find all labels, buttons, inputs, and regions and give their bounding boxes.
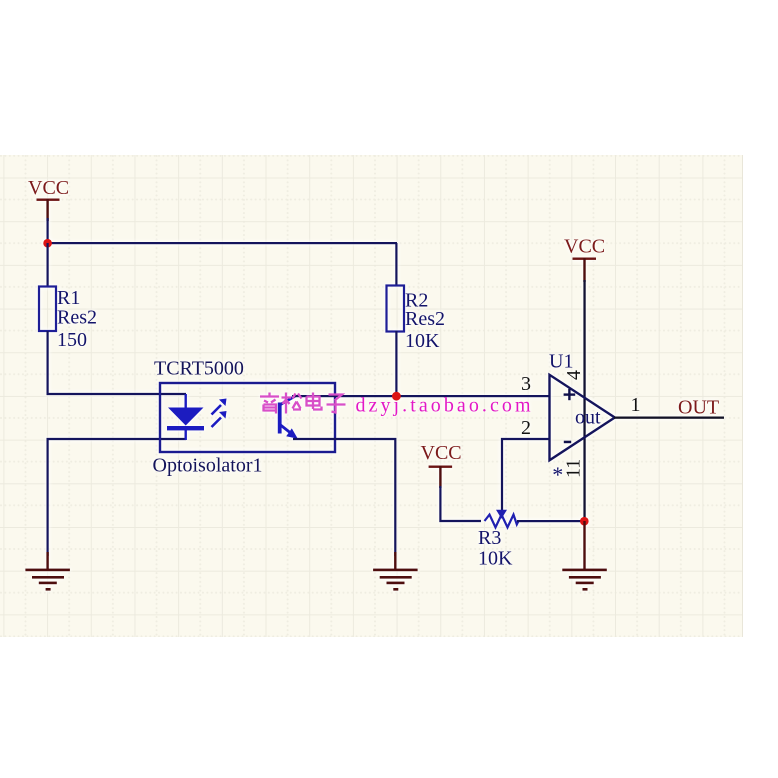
svg-text:10K: 10K xyxy=(478,548,513,570)
svg-text:R3: R3 xyxy=(478,527,501,549)
node junction R3/pin11/ground xyxy=(580,517,589,526)
svg-text:Res2: Res2 xyxy=(57,307,97,329)
LED emission arrow 1 xyxy=(212,399,227,415)
wire top rail xyxy=(47,242,398,244)
svg-text:4: 4 xyxy=(563,370,585,380)
svg-text:OUT: OUT xyxy=(678,397,719,419)
svg-text:U1: U1 xyxy=(549,351,573,373)
optoisolator U TCRT5000 box xyxy=(153,358,336,477)
wire VCC to R3 left xyxy=(440,486,481,521)
watermark chinese char dian xyxy=(307,393,322,410)
svg-text:VCC: VCC xyxy=(564,236,605,258)
watermark chinese char yu xyxy=(260,393,279,414)
wire R2 to collector net xyxy=(395,331,397,396)
svg-text:out: out xyxy=(575,407,601,429)
svg-text:2: 2 xyxy=(521,417,531,439)
wire opto cathode to ground xyxy=(48,439,186,556)
potentiometer R3 xyxy=(478,510,519,570)
power port VCC (above op-amp) xyxy=(564,236,605,283)
svg-text:Res2: Res2 xyxy=(405,308,445,330)
svg-text:TCRT5000: TCRT5000 xyxy=(154,358,244,380)
wire R1 to opto anode xyxy=(48,331,186,394)
watermark text xyxy=(356,395,531,417)
pin line 4/11 vertical through op-amp xyxy=(583,280,585,521)
phototransistor inside optoisolator xyxy=(278,396,298,439)
LED diode inside optoisolator xyxy=(167,394,204,440)
wire collector to op-amp pin3 xyxy=(292,395,549,397)
wire rail to R1 xyxy=(47,243,49,286)
watermark chinese char song xyxy=(282,393,302,414)
LED emission arrow 2 xyxy=(212,411,227,427)
svg-text:VCC: VCC xyxy=(28,177,69,199)
ground GND3 (right) xyxy=(562,521,607,591)
svg-text:VCC: VCC xyxy=(421,442,462,464)
wire emitter to ground xyxy=(293,439,395,556)
svg-text:10K: 10K xyxy=(405,330,440,352)
svg-text:Optoisolator1: Optoisolator1 xyxy=(153,455,263,477)
svg-text:11: 11 xyxy=(563,459,585,478)
ground GND1 (left) xyxy=(25,552,70,591)
wire op-amp output pin1 xyxy=(614,417,724,419)
node junction R2/collector xyxy=(392,392,401,401)
power port VCC (R3) xyxy=(421,442,462,488)
wire pin2 to R3 wiper xyxy=(502,439,549,510)
power port VCC (top-left) xyxy=(28,177,69,221)
wire VCC stem to rail xyxy=(47,218,49,244)
svg-text:1: 1 xyxy=(631,394,641,416)
svg-text:dzyj.taobao.com: dzyj.taobao.com xyxy=(356,395,531,417)
op-amp U1 triangle xyxy=(549,351,615,488)
watermark chinese char zi xyxy=(327,395,346,413)
svg-text:150: 150 xyxy=(57,329,87,351)
wire R3 right to junction xyxy=(517,520,585,522)
resistor R1 xyxy=(39,287,97,352)
svg-text:3: 3 xyxy=(521,373,531,395)
resistor R2 xyxy=(387,286,446,353)
ground GND2 (middle) xyxy=(373,552,418,591)
wire rail to R2 xyxy=(395,243,397,285)
node junction at VCC rail xyxy=(43,239,52,248)
